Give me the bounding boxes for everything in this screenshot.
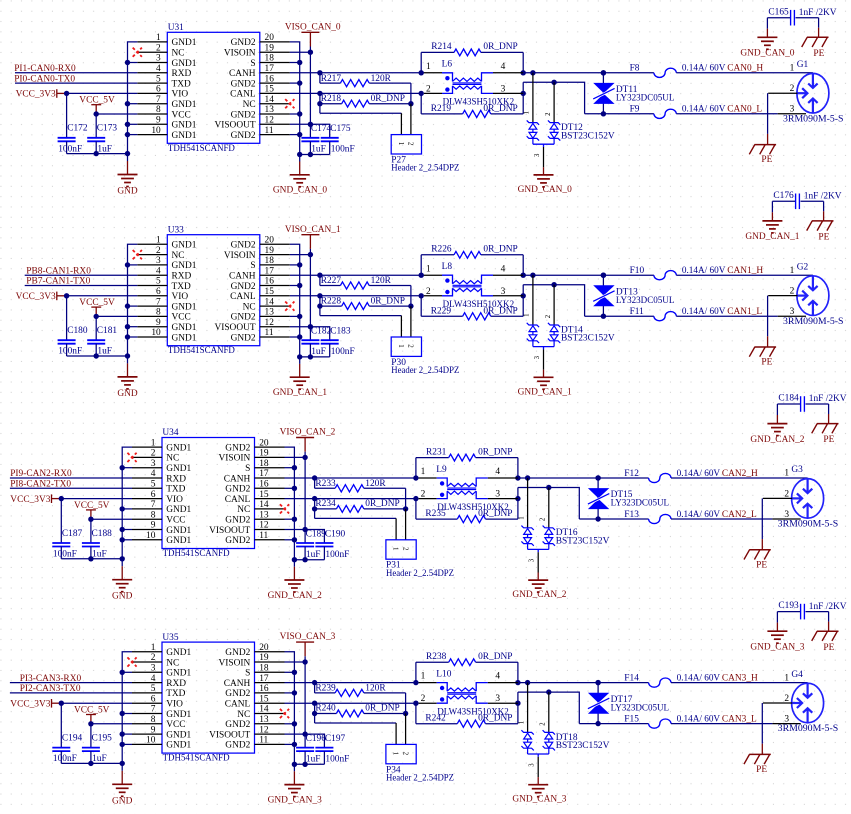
IC U31 pin 20 (GND2) [231, 33, 290, 48]
IC U34 pin 17 (CANH) [224, 469, 285, 484]
svg-text:1: 1 [426, 264, 431, 274]
svg-text:GND1: GND1 [166, 741, 191, 751]
IC U31 pin 2 (NC) [137, 43, 184, 58]
svg-text:100nF: 100nF [58, 144, 82, 154]
IC U33 pin 16 (GND2) [231, 277, 290, 292]
junction VISOOUT pin12 [302, 527, 307, 532]
svg-text:1: 1 [790, 64, 795, 74]
wire VCC_5V to VCC pin8 [96, 315, 137, 317]
IC U31 pin 4 (RXD) [137, 64, 191, 79]
svg-text:VCC: VCC [172, 110, 191, 120]
svg-text:2: 2 [790, 84, 795, 94]
svg-text:1: 1 [784, 469, 789, 479]
svg-text:2: 2 [784, 694, 789, 704]
svg-text:18: 18 [265, 54, 275, 64]
svg-text:1: 1 [392, 752, 400, 756]
IC U34 pin 12 (VISOOUT) [209, 521, 284, 536]
inductor/choke L9 DLW43SH510XK2 [419, 465, 518, 513]
svg-text:4: 4 [151, 674, 156, 684]
wire RXD net PI3-CAN3-RX0 [10, 682, 132, 684]
no-connect cross pin14 U31 [285, 99, 294, 108]
header P31 Header 2_2.54DPZ [315, 509, 455, 579]
wire VISOIN pin19 [285, 456, 306, 458]
svg-text:CAN3_L: CAN3_L [722, 714, 757, 724]
svg-text:U34: U34 [162, 428, 178, 438]
wire GND1 stub pin10 [122, 539, 132, 541]
wire GND2 stub pin13 [285, 518, 295, 520]
wire VCC_5V to VCC pin8 [91, 723, 132, 725]
wire VISO_CAN_0 stem [309, 47, 311, 53]
junction GND rail bus [125, 151, 130, 156]
svg-text:120R: 120R [371, 276, 392, 286]
resistor R228 0R_DNP [317, 296, 411, 316]
svg-text:1: 1 [397, 344, 405, 348]
svg-text:PE: PE [813, 49, 824, 59]
junction L jog TVS [551, 80, 556, 85]
wire GND2 stub pin11 [285, 743, 295, 745]
svg-text:GND_CAN_3: GND_CAN_3 [750, 643, 804, 653]
wire GND2 stub pin13 [285, 723, 295, 725]
junction CANL R termination [317, 293, 322, 298]
junction CANL at choke [413, 701, 418, 706]
svg-text:19: 19 [259, 653, 269, 663]
capacitor C187 100nF [52, 529, 82, 560]
svg-text:GND1: GND1 [172, 323, 197, 333]
svg-text:R231: R231 [426, 447, 447, 457]
svg-text:3: 3 [534, 153, 541, 157]
svg-text:0.14A/ 60V: 0.14A/ 60V [682, 307, 726, 317]
ground GND [117, 356, 138, 399]
junction choke pin4 [515, 680, 520, 685]
svg-text:7: 7 [151, 705, 156, 715]
wire GND2 stub pin11 [290, 134, 300, 136]
svg-text:BST23C152V: BST23C152V [556, 741, 610, 751]
svg-text:GND1: GND1 [166, 464, 191, 474]
junction VCC_3V3 [59, 701, 64, 706]
svg-text:CAN3_H: CAN3_H [722, 673, 758, 683]
junction VCC_3V3 [59, 496, 64, 501]
junction L jog TVS [546, 689, 551, 694]
earth PE corner [802, 37, 829, 59]
junction L jog TVS [551, 282, 556, 287]
IC U31 pin 10 (GND1) [137, 126, 197, 141]
wire C176 right to PE [801, 201, 824, 220]
wire GND1 stub pin10 [128, 134, 138, 136]
ground GND [112, 763, 133, 806]
svg-text:VCC: VCC [166, 516, 185, 526]
junction GND1 bus pin3 [125, 60, 130, 65]
svg-text:1: 1 [524, 313, 531, 316]
wire VCC_3V3 down to C [66, 296, 68, 340]
svg-text:L9: L9 [436, 465, 447, 475]
junction H line TVS2 [601, 70, 606, 75]
svg-text:0R_DNP: 0R_DNP [365, 704, 399, 714]
no-connect cross pin14 U35 [280, 709, 289, 718]
svg-text:C188: C188 [92, 529, 113, 539]
wire R229 right vertical [522, 285, 524, 317]
junction GND rail C2 [94, 151, 99, 156]
svg-text:8: 8 [156, 105, 161, 115]
svg-text:R217: R217 [321, 74, 342, 84]
svg-text:0R_DNP: 0R_DNP [483, 42, 517, 52]
svg-text:PE: PE [761, 155, 772, 165]
svg-text:C180: C180 [67, 326, 88, 336]
wire VCC_3V3 down to C [66, 93, 68, 137]
svg-text:NC: NC [237, 710, 250, 720]
svg-text:Header 2_2.54DPZ: Header 2_2.54DPZ [386, 773, 454, 783]
svg-text:C193: C193 [778, 601, 799, 611]
svg-text:4: 4 [495, 467, 500, 477]
svg-text:LY323DC05UL: LY323DC05UL [616, 296, 675, 306]
svg-text:C172: C172 [67, 124, 88, 134]
IC U35 pin 2 (NC) [132, 653, 179, 668]
capacitor C175 100nF [321, 124, 355, 155]
resistor R240 0R_DNP [312, 703, 406, 723]
svg-text:U31: U31 [168, 23, 184, 33]
junction choke pin3 [521, 91, 526, 96]
svg-text:GND2: GND2 [225, 689, 250, 699]
svg-text:16: 16 [259, 480, 269, 490]
IC U35 pin 6 (VIO) [132, 694, 183, 709]
svg-text:2: 2 [407, 142, 415, 146]
IC U35 pin 7 (GND1) [132, 705, 192, 720]
IC U35 pin 18 (S) [245, 664, 284, 679]
svg-text:15: 15 [265, 85, 275, 95]
wire RXD net PI1-CAN0-RX0 [15, 72, 137, 74]
svg-text:3RM090M-5-S: 3RM090M-5-S [778, 520, 839, 530]
capacitor C197 100nF [315, 734, 349, 765]
wire L line to connector [676, 113, 777, 115]
IC U33 pin 5 (TXD) [137, 277, 191, 292]
resistor R233 120R [315, 478, 406, 492]
svg-text:PE: PE [823, 643, 834, 653]
svg-text:GND_CAN_1: GND_CAN_1 [745, 232, 799, 242]
svg-text:1uF: 1uF [92, 754, 107, 764]
svg-text:2: 2 [790, 287, 795, 297]
junction VISOIN [302, 455, 307, 460]
svg-text:C182: C182 [311, 327, 332, 337]
svg-text:TDH541SCANFD: TDH541SCANFD [163, 754, 230, 764]
capacitor C183 100nF [321, 327, 355, 358]
IC U31 pin 7 (GND1) [137, 95, 197, 110]
IC U34 pin 11 (GND2) [225, 531, 284, 546]
wire VISO to C197 [305, 734, 324, 747]
resistor R214 0R_DNP bypass high side [421, 42, 523, 73]
svg-text:CAN0_L: CAN0_L [727, 105, 762, 115]
TVS array DT12 BST23C152V [524, 73, 615, 168]
junction GND rail C2 [88, 556, 93, 561]
IC U34 pin 4 (RXD) [132, 469, 186, 484]
capacitor C172 100nF [58, 124, 88, 155]
svg-text:7: 7 [151, 500, 156, 510]
svg-text:VIO: VIO [172, 292, 189, 302]
svg-text:VISO_CAN_0: VISO_CAN_0 [285, 22, 341, 32]
svg-text:18: 18 [259, 664, 269, 674]
svg-text:2: 2 [426, 84, 431, 94]
svg-text:NC: NC [172, 49, 185, 59]
svg-text:GND: GND [117, 389, 138, 399]
IC U35 pin 4 (RXD) [132, 674, 186, 689]
capacitor C174 1uF [301, 124, 331, 155]
svg-text:R239: R239 [315, 684, 336, 694]
junction H line TVS1 [530, 273, 535, 278]
svg-text:1: 1 [397, 142, 405, 146]
junction GND1 bus pin7 [120, 711, 125, 716]
wire CANH from pin17 [285, 682, 419, 684]
svg-text:4: 4 [495, 672, 500, 682]
IC U35 pin 1 (GND1) [132, 643, 192, 658]
junction CANH R termination [317, 273, 322, 278]
wire H line to connector [676, 72, 813, 74]
junction CANL R termination [317, 91, 322, 96]
svg-text:16: 16 [265, 277, 275, 287]
svg-text:2: 2 [407, 344, 415, 348]
svg-text:L10: L10 [436, 670, 451, 680]
svg-text:14: 14 [259, 500, 269, 510]
svg-text:GND2: GND2 [231, 79, 256, 89]
svg-text:16: 16 [265, 74, 275, 84]
svg-text:12: 12 [259, 521, 269, 531]
wire R235 right vertical [517, 488, 519, 520]
no-connect cross pin14 U33 [285, 302, 294, 311]
svg-text:PE: PE [761, 358, 772, 368]
wire VISOIN pin19 [290, 254, 311, 256]
wire CAN L jog [523, 82, 584, 114]
junction GND2 pin18 [292, 465, 297, 470]
junction H line TVS2 [601, 273, 606, 278]
IC U35 pin 12 (VISOOUT) [209, 725, 284, 740]
svg-text:PE: PE [756, 765, 767, 775]
svg-text:VCC: VCC [166, 720, 185, 730]
svg-text:11: 11 [259, 531, 268, 541]
capacitor C176 1nF/2KV [773, 191, 841, 209]
junction GND1 bus pin7 [120, 506, 125, 511]
svg-text:2: 2 [156, 246, 161, 256]
wire GND1 stub pin10 [128, 336, 138, 338]
IC U35 pin 8 (VCC) [132, 715, 185, 730]
svg-text:1uF: 1uF [306, 755, 321, 765]
junction GND2 pin18 [297, 60, 302, 65]
svg-text:2: 2 [784, 489, 789, 499]
svg-text:VISOIN: VISOIN [219, 658, 251, 668]
IC U33 pin 15 (CANL) [230, 287, 290, 302]
IC U35 pin 15 (CANL) [225, 694, 285, 709]
wire CAN L jog [518, 488, 579, 520]
wire VCC_3V3 down to C [60, 703, 62, 747]
svg-text:10: 10 [146, 531, 156, 541]
IC U31 pin 11 (GND2) [231, 126, 290, 141]
svg-text:3: 3 [790, 105, 795, 115]
junction CANH R termination [317, 70, 322, 75]
svg-text:0R_DNP: 0R_DNP [371, 296, 405, 306]
wire R233 to R234 [405, 488, 407, 509]
wire VISO vertical [304, 662, 306, 747]
wire C193 right to PE [806, 612, 829, 631]
IC U33 pin 7 (GND1) [137, 297, 197, 312]
svg-text:1nF /2KV: 1nF /2KV [809, 394, 847, 404]
capacitor C173 1uF [87, 113, 117, 154]
svg-text:1: 1 [421, 672, 426, 682]
ground GND_CAN_1 under TVS [518, 370, 572, 398]
wire GND2 stub pin18 [290, 264, 300, 266]
svg-text:R218: R218 [321, 94, 342, 104]
junction GND_CAN rail 1 [292, 557, 297, 562]
svg-text:VCC_3V3: VCC_3V3 [16, 90, 56, 100]
svg-text:VISOIN: VISOIN [219, 454, 251, 464]
junction choke pin3 [515, 496, 520, 501]
junction GND2 pin16 [292, 690, 297, 695]
svg-text:GND1: GND1 [166, 648, 191, 658]
junction GND_CAN rail 1 [297, 152, 302, 157]
wire GND1 bus left of U34 [122, 447, 132, 559]
svg-text:1: 1 [151, 643, 156, 653]
junction choke pin4 [521, 70, 526, 75]
wire VCC_3V3 to VIO pin6 [61, 702, 132, 704]
svg-text:13: 13 [265, 105, 275, 115]
wire VISO to C175 [310, 124, 329, 137]
junction VCC_5V [94, 111, 99, 116]
junction DT15 top [595, 475, 600, 480]
junction GND_CAN rail 1 [297, 354, 302, 359]
svg-text:120R: 120R [365, 684, 386, 694]
TVS diode DT15 LY323DC05UL [587, 478, 669, 519]
wire VISOIN pin19 [290, 51, 311, 53]
svg-text:F14: F14 [624, 673, 639, 683]
svg-text:3RM090M-5-S: 3RM090M-5-S [783, 317, 844, 327]
svg-text:GND_CAN_0: GND_CAN_0 [740, 49, 794, 59]
svg-text:13: 13 [259, 510, 269, 520]
wire VISO to C190 [305, 530, 324, 543]
power port VISO_CAN_1 [285, 225, 341, 249]
svg-text:GND: GND [117, 187, 138, 197]
wire GND2 vertical [290, 244, 300, 357]
no-connect cross pin14 U34 [280, 504, 289, 513]
junction GND2 pin18 [292, 670, 297, 675]
wire VCC_5V to VCC pin8 [96, 113, 137, 115]
wire VISO vertical [309, 52, 311, 137]
op-amp/IC U33 TDH541SCANFD body [167, 235, 259, 346]
power port VCC_3V3 [10, 699, 61, 709]
wire TXD net PI8-CAN2-TX0 [10, 487, 132, 489]
wire VISOOUT pin12 [285, 733, 306, 735]
wire GND2 stub pin16 [285, 692, 295, 694]
wire GND2 stub pin11 [290, 336, 300, 338]
junction H line TVS2 [595, 475, 600, 480]
wire RXD net PI9-CAN2-RX0 [10, 477, 132, 479]
resistor R239 120R [315, 683, 406, 697]
junction CANL at choke [419, 91, 424, 96]
power port VISO_CAN_0 [285, 22, 341, 46]
wire GND1 stub pin3 [122, 467, 132, 469]
svg-text:1: 1 [790, 266, 795, 276]
header P27 Header 2_2.54DPZ [320, 104, 460, 174]
svg-text:3: 3 [156, 54, 161, 64]
capacitor C195 1uF [82, 723, 112, 764]
svg-text:C174: C174 [311, 124, 332, 134]
svg-text:S: S [245, 669, 250, 679]
capacitor C182 1uF [301, 327, 331, 358]
svg-text:2: 2 [401, 547, 409, 551]
wire GND2 stub pin16 [290, 82, 300, 84]
svg-text:2: 2 [426, 287, 431, 297]
fuse F13 0.14A/60V low side [624, 510, 720, 524]
svg-text:2: 2 [421, 694, 426, 704]
svg-text:PE: PE [823, 435, 834, 445]
IC U31 pin 19 (VISOIN) [224, 43, 290, 58]
svg-text:GND1: GND1 [172, 131, 197, 141]
junction CANH R termination [312, 680, 317, 685]
IC U31 pin 1 (GND1) [137, 33, 197, 48]
svg-text:3: 3 [495, 490, 500, 500]
svg-text:GND2: GND2 [225, 516, 250, 526]
svg-text:8: 8 [151, 510, 156, 520]
junction H line TVS1 [530, 70, 535, 75]
ground GND_CAN_3 corner [750, 631, 804, 652]
wire CANL from pin15 [285, 702, 416, 704]
junction L line TVS [595, 516, 600, 521]
svg-text:2: 2 [151, 449, 156, 459]
IC U34 pin 14 (NC) [237, 500, 284, 515]
IC U35 pin 10 (GND1) [132, 736, 192, 751]
power port VCC_3V3 [16, 292, 67, 302]
junction GND1 bus pin10 [120, 742, 125, 747]
svg-text:2: 2 [151, 653, 156, 663]
svg-text:2: 2 [545, 314, 552, 318]
IC U33 pin 2 (NC) [137, 246, 184, 261]
svg-text:G3: G3 [791, 465, 803, 475]
svg-text:BST23C152V: BST23C152V [556, 537, 610, 547]
junction choke pin4 [521, 273, 526, 278]
svg-text:VISOIN: VISOIN [224, 49, 256, 59]
svg-text:GND_CAN_0: GND_CAN_0 [273, 186, 327, 196]
svg-text:2: 2 [540, 517, 547, 521]
svg-text:GND1: GND1 [166, 536, 191, 546]
svg-text:RXD: RXD [172, 69, 192, 79]
junction CANL at choke [419, 293, 424, 298]
IC U34 pin 19 (VISOIN) [219, 449, 285, 464]
svg-text:3: 3 [784, 714, 789, 724]
svg-text:3: 3 [534, 355, 541, 359]
wire GND2 stub pin18 [285, 671, 295, 673]
wire GND2 stub pin16 [290, 285, 300, 287]
wire GND2 stub pin11 [285, 539, 295, 541]
wire GND2 stub pin18 [290, 62, 300, 64]
wire VCC_3V3 down to C [60, 499, 62, 543]
svg-text:GND_CAN_1: GND_CAN_1 [273, 388, 327, 398]
svg-text:PE: PE [818, 233, 829, 243]
resistor R219 0R_DNP bypass low side [421, 93, 523, 117]
svg-text:LY323DC05UL: LY323DC05UL [611, 499, 670, 509]
svg-text:4: 4 [501, 62, 506, 72]
svg-text:6: 6 [151, 694, 156, 704]
capacitor C188 1uF [82, 518, 112, 559]
svg-text:0.14A/ 60V: 0.14A/ 60V [682, 64, 726, 74]
IC U35 pin 16 (GND2) [225, 684, 284, 699]
junction GND1 bus pin9 [120, 731, 125, 736]
svg-text:GND2: GND2 [225, 648, 250, 658]
junction H line TVS1 [525, 680, 530, 685]
svg-text:RXD: RXD [166, 474, 186, 484]
wire GND1 stub pin7 [128, 103, 138, 105]
IC U35 pin 11 (GND2) [225, 736, 284, 751]
svg-text:GND2: GND2 [231, 313, 256, 323]
junction choke pin3 [515, 701, 520, 706]
svg-text:1: 1 [421, 467, 426, 477]
svg-text:3: 3 [156, 256, 161, 266]
ground GND_CAN_1 under IC [273, 357, 327, 398]
capacitor C193 1nF/2KV [778, 601, 846, 619]
svg-text:VISOOUT: VISOOUT [209, 730, 250, 740]
